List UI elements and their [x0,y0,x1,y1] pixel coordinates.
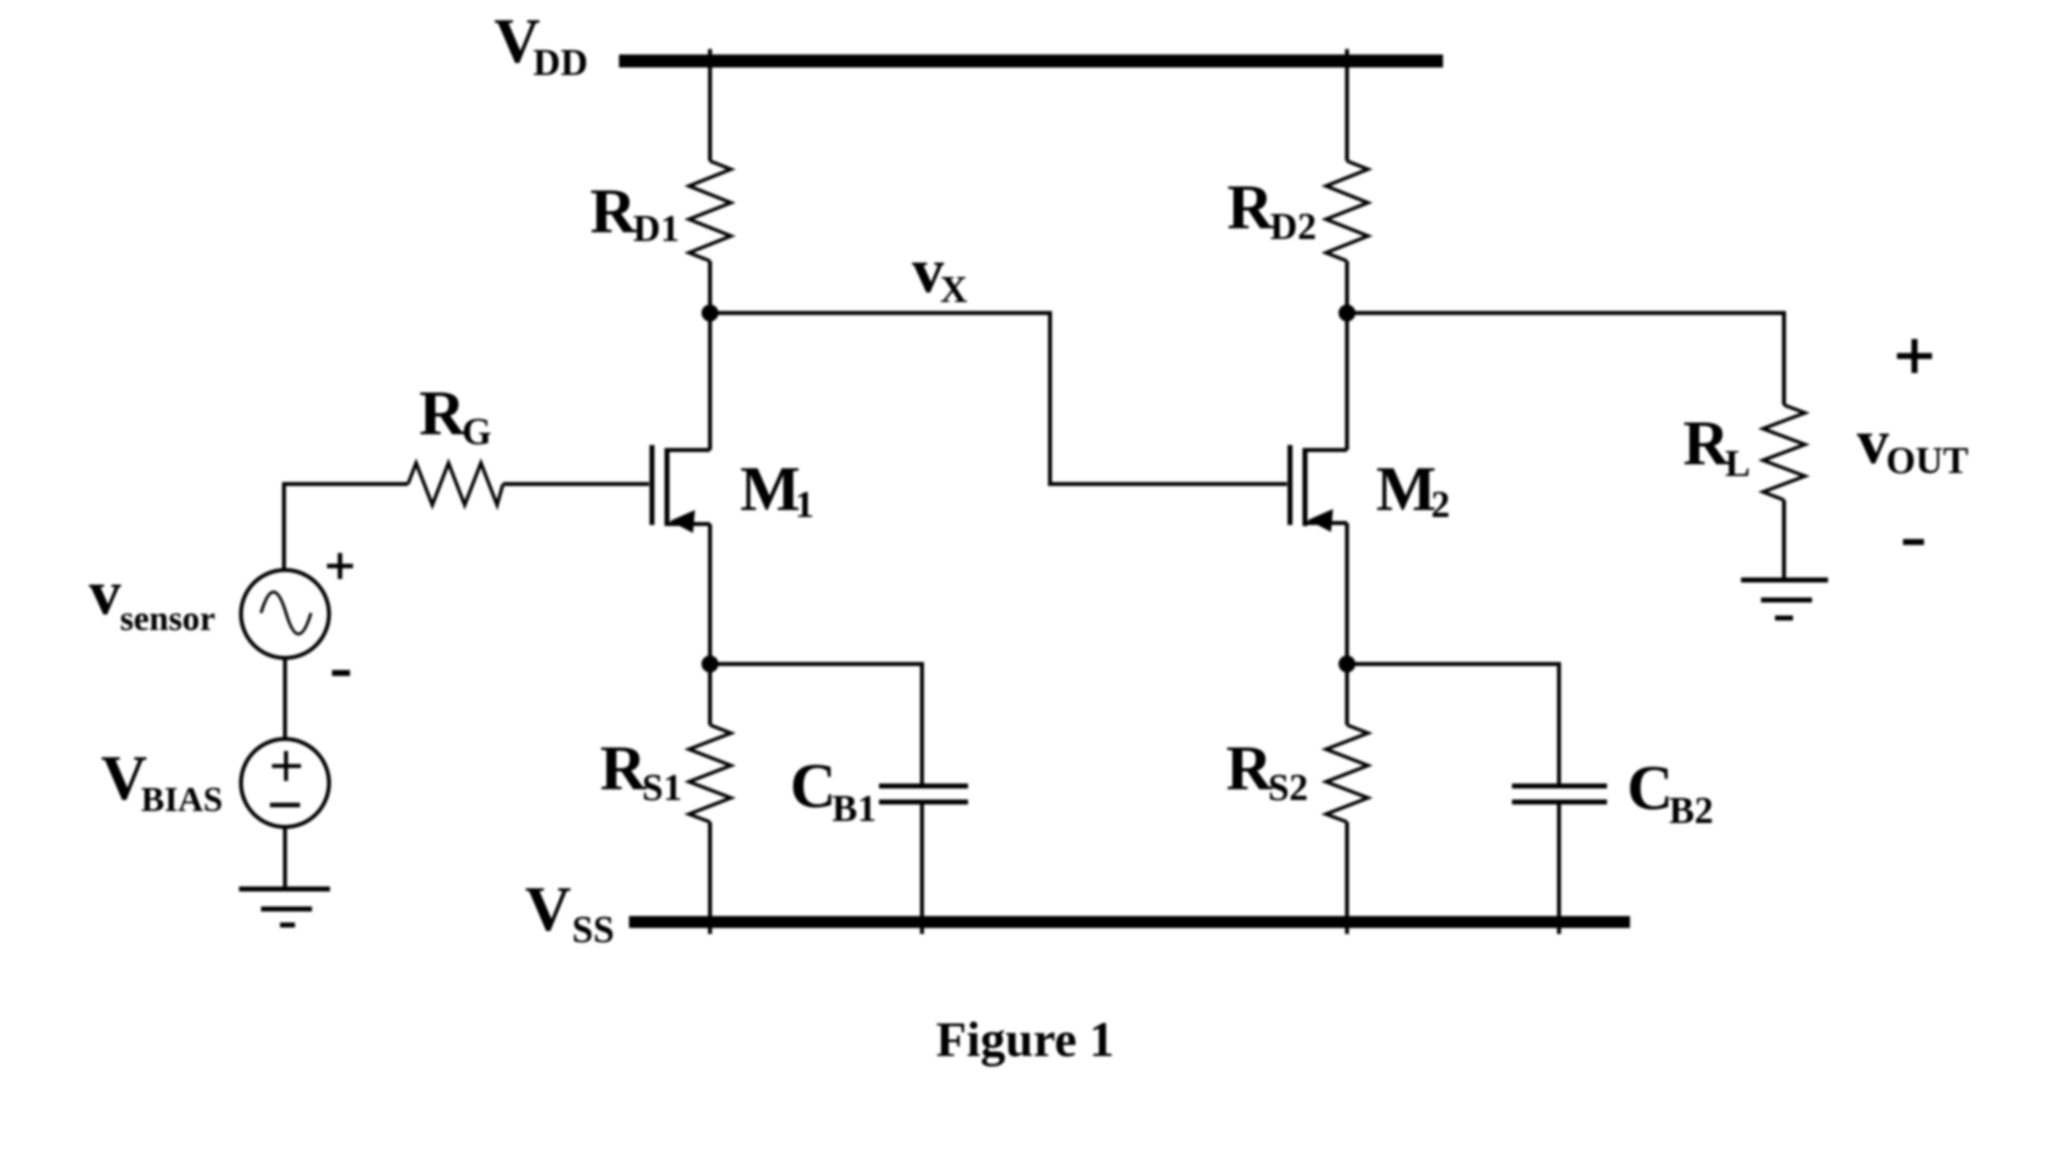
polarity plus (vsensor) [327,553,353,579]
node: M1 drain junction [702,305,719,322]
svg-text:R: R [1226,732,1273,803]
label vOUT [1857,406,1968,482]
resistor RS2 [1326,725,1368,822]
ground (output) [1741,580,1828,618]
wire: VDD to RD1 [708,49,712,161]
wire: RD1 to M1 drain [708,261,712,450]
polarity minus (vOUT) [1903,539,1924,545]
transistor M2 [1290,445,1347,532]
svg-text:DD: DD [533,42,588,84]
ground (input) [239,889,330,925]
wire: input corner down to vsensor [282,482,286,570]
wire: RD2 to M2 drain [1345,261,1349,450]
label RD2 [1227,171,1316,248]
wire: RS1 to VSS [708,822,712,934]
label RL [1683,407,1750,485]
label VBIAS [101,742,223,819]
svg-text:Figure 1: Figure 1 [936,1011,1114,1067]
label RS1 [600,732,682,809]
svg-text:M: M [740,453,800,524]
svg-text:V: V [525,873,571,944]
wire: VDD to RD2 [1345,49,1349,161]
svg-text:sensor: sensor [120,599,215,638]
wire: M1 source down [708,524,712,664]
node: M2 drain junction [1339,305,1356,322]
svg-text:M: M [1376,453,1436,524]
wire: output net (M2 drain to RL) [1347,313,1784,405]
wire: M2 source down [1345,523,1349,664]
svg-text:v: v [89,557,121,628]
node: M1 source junction [702,656,719,673]
source VBIAS [241,739,329,827]
wire: VBIAS to ground [283,827,287,889]
svg-text:1: 1 [795,484,814,526]
polarity plus (vOUT) [1897,339,1932,373]
capacitor CB2 [1512,786,1607,802]
label M1 [740,453,814,526]
resistor RD1 [689,161,731,261]
polarity minus (vsensor) [332,670,350,676]
label RD1 [590,175,679,250]
wire: vX net (drain M1 to gate M2) [710,313,1287,484]
power rail VDD [619,55,1443,68]
wire: M2 source to RS2 [1345,664,1349,725]
resistor RG [284,463,649,505]
label CB2 [1627,752,1713,832]
wire: vsensor to VBIAS [283,658,287,739]
svg-text:R: R [590,175,637,246]
power rail VSS [629,916,1630,928]
svg-text:R: R [1227,171,1274,242]
label vX [912,235,967,311]
label M2 [1376,453,1450,526]
node: M2 source junction [1339,656,1356,673]
svg-text:C: C [790,750,836,821]
transistor M1 [652,445,710,533]
svg-text:G: G [462,411,492,453]
svg-text:B1: B1 [832,788,876,830]
svg-text:2: 2 [1431,484,1450,526]
svg-text:S1: S1 [642,767,682,809]
resistor RS1 [689,725,731,822]
wire: M2 source to CB2 [1347,664,1559,786]
svg-text:D2: D2 [1270,206,1316,248]
wire: RS2 to VSS [1345,822,1349,934]
wire: source node to CB1 [710,664,922,786]
wire: RL to ground [1782,500,1786,580]
label VDD [494,5,588,84]
label RS2 [1226,732,1308,809]
source vsensor (sine) [241,570,329,658]
svg-text:C: C [1627,752,1673,823]
resistor RD2 [1326,161,1368,261]
svg-text:BIAS: BIAS [141,780,223,819]
label VSS [525,873,614,951]
svg-text:S2: S2 [1268,767,1308,809]
svg-text:R: R [600,732,647,803]
wire: CB2 to VSS [1557,802,1561,934]
label RG [419,377,492,453]
svg-text:OUT: OUT [1886,440,1968,482]
wire: source node to RS1 [708,664,712,725]
svg-text:D1: D1 [633,208,679,250]
svg-text:X: X [940,269,967,311]
label vsensor [89,557,215,638]
caption Figure 1 [936,1011,1114,1067]
svg-text:v: v [1857,406,1889,477]
svg-text:B2: B2 [1669,790,1713,832]
svg-text:SS: SS [572,909,614,951]
svg-text:R: R [419,377,466,448]
svg-text:L: L [1725,443,1750,485]
resistor RL [1763,405,1805,500]
capacitor CB1 [879,786,968,802]
svg-text:R: R [1683,407,1730,478]
wire: CB1 to VSS [920,802,924,934]
label CB1 [790,750,876,830]
